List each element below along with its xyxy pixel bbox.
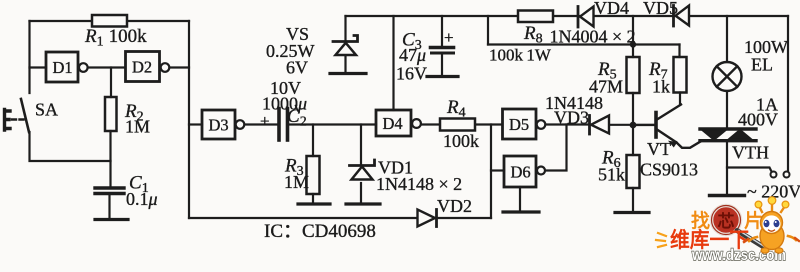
svg-text:51k: 51k (598, 165, 625, 185)
svg-text:D4: D4 (383, 114, 403, 133)
switch SA (5, 99, 59, 132)
wire R4 to D5 input (475, 123, 502, 125)
svg-text:1M: 1M (125, 117, 150, 137)
wire R5 bottom to node (632, 93, 634, 125)
wire R2 bottom to C1 (109, 131, 111, 188)
wire R7 bottom to VT collector (679, 93, 681, 105)
svg-text:SA: SA (35, 100, 58, 120)
svg-text:0.1μ: 0.1μ (126, 189, 158, 209)
wire R5 top column (632, 16, 634, 57)
svg-text:100k: 100k (443, 131, 479, 151)
ground (triac) (710, 194, 745, 197)
svg-text:R1100k: R1100k (84, 26, 147, 50)
ground (R3) (298, 202, 330, 205)
svg-text:1M: 1M (284, 172, 309, 192)
svg-text:CS9013: CS9013 (640, 160, 698, 180)
svg-text:D3: D3 (209, 116, 229, 135)
wire lamp EL top stub (726, 16, 728, 62)
wire D1 output to D2 input (88, 66, 125, 68)
mains terminal right (784, 172, 790, 178)
node A junction (base net) (630, 122, 637, 129)
ground (VS) (330, 72, 366, 75)
svg-text:1N4148 × 2: 1N4148 × 2 (376, 174, 462, 194)
svg-text:16V: 16V (396, 64, 427, 84)
wire triac T1 to left mains terminal (727, 168, 772, 172)
transistor VT CS9013 (640, 105, 701, 180)
wire VD1 to ground (360, 183, 362, 203)
wire R8 bypass left vertical (487, 16, 489, 45)
svg-text:+: + (444, 28, 454, 47)
resistor R2 (105, 97, 150, 137)
inverter D6 (504, 156, 545, 187)
wire top bus right corner down to mains terminal (787, 16, 789, 171)
diode VD1 (350, 158, 463, 195)
diode VD4 (578, 0, 629, 27)
wire junction to R2 top (110, 68, 112, 98)
svg-text:VD3: VD3 (554, 108, 589, 128)
diode VD3 (545, 93, 609, 134)
resistor R4 (440, 97, 479, 151)
inverter D3 (202, 110, 244, 139)
capacitor C1 (95, 173, 158, 210)
svg-text:47μ: 47μ (399, 45, 426, 65)
watermark logo dzsc (656, 197, 799, 264)
inverter D5 (503, 109, 546, 139)
ground (C3) (427, 75, 458, 78)
wire top-left feedback bus (30, 20, 190, 22)
svg-text:VTH: VTH (732, 143, 769, 163)
svg-text:1k: 1k (652, 77, 670, 97)
svg-text:100k 1W: 100k 1W (489, 46, 552, 65)
wire node to VT base (633, 124, 655, 126)
node junction (bypass line) (630, 41, 636, 47)
svg-text:D5: D5 (509, 115, 529, 134)
ground (D6) (503, 210, 539, 213)
diode VD5 (643, 0, 689, 26)
wire R7 top stub (678, 45, 680, 58)
triac VTH (700, 129, 769, 163)
wire D4 power stub to top bus (392, 16, 394, 110)
ground (C1) (95, 218, 128, 221)
svg-text:1000μ: 1000μ (262, 94, 307, 114)
svg-text:1N4004 × 2: 1N4004 × 2 (550, 27, 636, 47)
resistor R6 (598, 148, 640, 189)
wire node to R6 (632, 125, 634, 155)
wire D3 output to C2 (245, 123, 278, 125)
wire D4 output to R4 (421, 123, 440, 125)
svg-text:VD2: VD2 (437, 196, 472, 216)
svg-text:D1: D1 (53, 58, 73, 77)
mascot (744, 197, 799, 253)
wire triac main terminal down (726, 141, 728, 195)
wire D6 ground stub (519, 187, 521, 212)
svg-text:R8: R8 (523, 23, 543, 47)
capacitor C2 (260, 78, 307, 140)
inverter D2 (126, 52, 170, 82)
svg-text:VD5: VD5 (643, 0, 678, 18)
resistor R1 (84, 15, 147, 50)
wire lower parallel line 1N4004 loop (488, 43, 680, 45)
magnifier with chip character (712, 206, 741, 235)
wire lamp EL to triac (726, 91, 728, 128)
svg-text:芯: 芯 (718, 211, 735, 231)
sparkle lines (656, 233, 666, 247)
magnifier handle (737, 231, 767, 250)
svg-text:6V: 6V (286, 58, 308, 78)
wire right vertical (D2 out / D3 in / bottom bus) (188, 21, 190, 218)
wire R3 to ground (312, 194, 314, 203)
wire left vertical from top bus to switch SA (28, 21, 30, 93)
svg-text:D2: D2 (132, 58, 152, 77)
svg-text:VT: VT (647, 139, 671, 159)
wire D2 output to right vertical (170, 66, 190, 68)
inverter D1 (46, 52, 88, 82)
wire VD1 stub (360, 125, 362, 164)
wire C1 to ground (108, 194, 110, 219)
mains terminal left (771, 172, 777, 178)
wire zener VS to ground bar (344, 55, 346, 73)
wire node column D5/D6 inputs down to bottom bus (490, 125, 492, 219)
wire VD3 to node (609, 124, 656, 126)
wire bottom feedback bus (189, 217, 491, 219)
capacitor C3 (396, 28, 454, 84)
wire D6 input stub (491, 169, 504, 171)
wire C2 to D4 input (289, 123, 376, 125)
wire SA bottom horizontal (30, 132, 111, 161)
ground (R6) (615, 211, 649, 214)
wire D5 output to VD3 (546, 123, 590, 125)
svg-text:EL: EL (751, 55, 773, 75)
svg-text:+: + (260, 112, 270, 131)
wire D6 output up to D5 output net (546, 125, 567, 171)
resistor R3 (284, 156, 320, 195)
wire D1 input stub (30, 66, 47, 68)
wire zener VS stub (344, 16, 346, 40)
lamp EL (713, 37, 789, 91)
wire C3 to ground bar (441, 54, 443, 76)
resistor R8 (489, 11, 636, 65)
wire R3 stub (312, 125, 314, 157)
wire D3 input stub (189, 123, 202, 125)
wire R6 to ground (632, 188, 634, 212)
svg-text:IC：CD40698: IC：CD40698 (264, 221, 376, 242)
svg-text:47M: 47M (589, 77, 623, 97)
inverter D4 (376, 110, 421, 136)
diode VD2 (418, 196, 473, 227)
zener VS (266, 24, 358, 78)
ground (VD1) (346, 202, 380, 205)
resistor R7 (648, 57, 687, 97)
svg-text:VD4: VD4 (594, 0, 629, 18)
wire C3 stub (441, 16, 443, 46)
resistor R5 (589, 57, 640, 97)
svg-text:D6: D6 (511, 163, 531, 182)
svg-text:400V: 400V (738, 110, 778, 130)
wire top supply bus (346, 15, 789, 17)
svg-text:R4: R4 (446, 97, 466, 121)
